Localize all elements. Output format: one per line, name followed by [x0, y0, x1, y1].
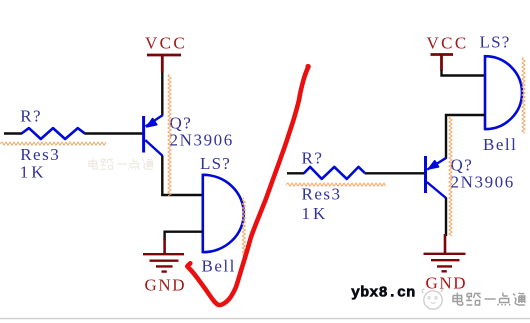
- wire VCC to speaker LS2 top: [442, 70, 486, 76]
- speaker LS? Bell (left): [203, 174, 244, 254]
- compile-error squiggle along left VCC wire: [168, 74, 171, 196]
- transistor Q? 2N3906 (right, PNP): [426, 156, 447, 198]
- watermark: faint site logo circle (bottom right): [422, 288, 442, 309]
- net label GND (right): [426, 274, 468, 293]
- svg-text:ybx8.cn: ybx8.cn: [351, 285, 415, 302]
- label Bell (left speaker type): [202, 257, 236, 276]
- wire speaker LS2 bottom to Q2 emitter: [446, 115, 485, 159]
- wire speaker LS1 bottom to ground: [165, 232, 203, 240]
- label 2N3906 (left transistor type): [170, 131, 234, 150]
- wire Q2 collector to ground: [445, 198, 447, 237]
- svg-text:VCC: VCC: [427, 34, 469, 53]
- label LS? (right speaker designator): [480, 33, 511, 52]
- svg-text:R?: R?: [302, 149, 324, 168]
- label Res3 (left resistor type): [20, 145, 60, 164]
- ground symbol GND (right): [424, 234, 466, 271]
- compile-error squiggle under right resistor: [286, 183, 386, 186]
- svg-text:R?: R?: [20, 107, 42, 126]
- svg-text:GND: GND: [426, 274, 468, 293]
- svg-text:2N3906: 2N3906: [170, 131, 234, 150]
- watermark text 电路一点通 (faint, middle left): [89, 159, 153, 170]
- svg-text:VCC: VCC: [145, 34, 187, 53]
- svg-text:LS?: LS?: [480, 33, 511, 52]
- wire VCC to Q1 emitter (left vertical): [161, 73, 163, 116]
- svg-text:Res3: Res3: [302, 185, 342, 204]
- net label VCC (left): [145, 34, 187, 53]
- power symbol VCC (right): [431, 55, 454, 71]
- svg-text:1K: 1K: [302, 204, 329, 223]
- svg-text:2N3906: 2N3906: [451, 173, 515, 192]
- wire Q1 collector to speaker LS1 top: [162, 156, 203, 196]
- label 1K (right resistor value): [302, 204, 329, 223]
- label R? (right resistor designator): [302, 149, 324, 168]
- label Res3 (right resistor type): [302, 185, 342, 204]
- watermark text 电路一点通 (bottom right): [453, 293, 525, 306]
- wire input to base of Q2 (right horizontal): [287, 172, 426, 174]
- resistor R? Res3 1K (right) zigzag: [304, 167, 365, 179]
- svg-text:1K: 1K: [20, 163, 47, 182]
- compile-error squiggle along right speaker-collector wire: [449, 116, 452, 236]
- label R? (left resistor designator): [20, 107, 42, 126]
- compile-error squiggle right of right speaker: [522, 57, 525, 133]
- speaker LS? Bell (right): [485, 55, 522, 130]
- svg-text:LS?: LS?: [200, 154, 231, 173]
- label Bell (right speaker type): [483, 135, 517, 154]
- net label GND (left): [145, 276, 187, 295]
- svg-text:GND: GND: [145, 276, 187, 295]
- svg-text:Bell: Bell: [483, 135, 517, 154]
- net label VCC (right): [427, 34, 469, 53]
- power symbol VCC (left): [147, 55, 181, 73]
- site caption ybx8.cn: [351, 285, 415, 302]
- label Q? (right transistor designator): [451, 156, 474, 175]
- ground symbol GND (left): [143, 239, 184, 272]
- wire input to base of Q1 (left horizontal): [4, 132, 144, 134]
- bottom divider line: [0, 318, 530, 320]
- compile-error squiggle under left resistor: [0, 142, 106, 145]
- label LS? (left speaker designator): [200, 154, 231, 173]
- resistor R? Res3 1K (left) zigzag: [22, 128, 85, 139]
- label 2N3906 (right transistor type): [451, 173, 515, 192]
- svg-text:Res3: Res3: [20, 145, 60, 164]
- label 1K (left resistor value): [20, 163, 47, 182]
- compile-error squiggle right of left speaker: [242, 198, 245, 255]
- label Q? (left transistor designator): [170, 114, 193, 133]
- transistor Q? 2N3906 (left, PNP): [144, 115, 163, 156]
- hand-drawn red check mark annotation: [187, 64, 310, 305]
- svg-text:Bell: Bell: [202, 257, 236, 276]
